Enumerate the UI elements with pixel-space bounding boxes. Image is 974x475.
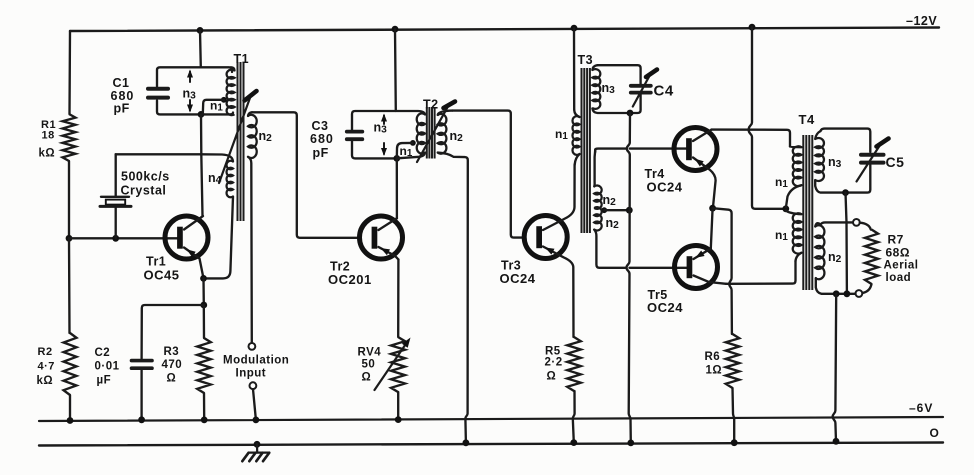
label n2 lower of T3 bbox=[606, 216, 620, 231]
capacitor C2 bbox=[132, 361, 153, 369]
tuning arrow T1 bbox=[219, 91, 257, 183]
terminal modulation input top bbox=[249, 343, 256, 350]
wire bias line vertical bbox=[627, 113, 631, 443]
svg-text:Tr1: Tr1 bbox=[146, 255, 166, 269]
label R3 470 Ohm bbox=[162, 346, 183, 385]
label Tr3 OC24 bbox=[500, 259, 536, 287]
wire R5 to 0V rail bbox=[573, 391, 575, 443]
svg-text:R2: R2 bbox=[38, 346, 53, 358]
node n2 box bottom junction right bbox=[844, 290, 851, 297]
wire R3 bottom bbox=[203, 393, 206, 420]
junction top rail at T4 feed bbox=[749, 24, 756, 31]
node C5 box bottom junction bbox=[842, 189, 849, 196]
tuning arrow T2 bbox=[417, 102, 455, 163]
winding T1 lower-left n4 bbox=[201, 154, 233, 197]
svg-text:1Ω: 1Ω bbox=[706, 365, 723, 377]
label R5 2.2 Ohm bbox=[545, 346, 563, 383]
winding T3 right n2 upper bbox=[594, 150, 602, 209]
winding T3 left n1 bbox=[572, 116, 579, 155]
label T3 bbox=[578, 53, 594, 67]
wire centre tap stub bbox=[604, 209, 629, 211]
wire Tr2 emitter lead bbox=[379, 247, 399, 260]
svg-text:0·01: 0·01 bbox=[95, 361, 120, 373]
svg-text:470: 470 bbox=[162, 359, 183, 371]
svg-text:C2: C2 bbox=[95, 347, 111, 359]
svg-text:kΩ: kΩ bbox=[37, 375, 54, 387]
svg-text:OC45: OC45 bbox=[144, 268, 180, 283]
junction R3 on -6V rail bbox=[201, 417, 208, 424]
svg-text:C4: C4 bbox=[654, 83, 674, 100]
terminal modulation input bottom bbox=[250, 382, 257, 389]
svg-text:Ω: Ω bbox=[167, 373, 177, 385]
wire C2 bottom bbox=[140, 370, 142, 420]
svg-text:pF: pF bbox=[114, 102, 130, 116]
wire n2 box bottom edge bbox=[816, 278, 856, 294]
label C1 680 pF bbox=[111, 76, 135, 116]
wire rail feed to T3 n1 bbox=[574, 28, 580, 117]
resistor R2 bbox=[64, 333, 77, 395]
wire Tr5 base bbox=[630, 267, 688, 269]
arrow C4 variable bbox=[633, 70, 657, 107]
wire R6 to 0V rail bbox=[733, 388, 735, 443]
svg-text:500kc/s: 500kc/s bbox=[121, 170, 170, 184]
arrow C5 variable bbox=[857, 139, 889, 182]
wire C4 box top edge bbox=[598, 65, 641, 84]
wire modulation ground lead bbox=[253, 389, 256, 420]
winding T2 left n3/n1 bbox=[399, 113, 425, 158]
winding T4 left n1 lower bbox=[786, 211, 802, 262]
wire Tr4 emitter to T4 bbox=[712, 130, 791, 147]
wire crystal bottom lead bbox=[115, 208, 117, 239]
core T2 bbox=[427, 107, 435, 159]
crystal XT 500kc/s bbox=[100, 197, 131, 207]
resistor R3 bbox=[197, 338, 211, 393]
transistor Tr1 bbox=[165, 216, 208, 259]
wire n1 tap stub bbox=[203, 100, 224, 115]
junction RV4 on -6V rail bbox=[395, 416, 402, 423]
wire -12V supply rail bbox=[70, 28, 939, 32]
resistor R7 bbox=[865, 230, 878, 285]
wire Tr4 emitter lead bbox=[693, 130, 712, 141]
wire aerial top to R7 bbox=[860, 223, 871, 230]
transistor Tr4 bbox=[674, 128, 717, 171]
label n3 of T2 bbox=[374, 121, 388, 136]
svg-text:C1: C1 bbox=[113, 76, 130, 90]
node C1 box bottom junction bbox=[198, 111, 205, 118]
winding T4 right n3 bbox=[815, 131, 824, 181]
svg-text:C3: C3 bbox=[312, 119, 329, 133]
label T4 bbox=[799, 112, 815, 127]
wire rail feed to C3 box bbox=[394, 29, 397, 111]
wire Tr2 emitter to RV4 bbox=[397, 260, 400, 338]
transistor Tr5 bbox=[675, 246, 718, 289]
wire T4 return to 0V rail bbox=[833, 294, 837, 442]
label RV4 50 Ohm bbox=[358, 347, 382, 384]
label 500kc/s Crystal bbox=[121, 170, 170, 198]
label C4 bbox=[654, 83, 674, 100]
svg-text:T1: T1 bbox=[234, 52, 250, 66]
svg-text:T4: T4 bbox=[799, 112, 815, 127]
wire T2 n2 bottom to 0V rail bbox=[438, 153, 468, 443]
label n2 upper of T3 bbox=[603, 193, 617, 208]
svg-text:Input: Input bbox=[236, 368, 267, 380]
node T4 centre tap bbox=[782, 205, 789, 212]
wire n2 top to Tr2 base bbox=[252, 112, 360, 238]
wire C1 box bottom edge bbox=[157, 101, 233, 115]
terminal aerial top bbox=[853, 219, 860, 226]
label n4 of T1 bbox=[208, 171, 222, 186]
wire n2 box top edge bbox=[821, 222, 853, 224]
wire C2 top bbox=[142, 305, 204, 359]
svg-text:R6: R6 bbox=[705, 351, 721, 363]
wire n4 return to emitter node bbox=[204, 197, 234, 279]
junction R2 on -6V rail bbox=[67, 417, 74, 424]
junction R5 on 0V rail bbox=[570, 439, 577, 446]
svg-text:O: O bbox=[930, 426, 940, 440]
svg-text:Ω: Ω bbox=[547, 371, 557, 383]
wire rail feed to T4 centre tap bbox=[749, 27, 786, 209]
winding T1 right n2 bbox=[248, 112, 257, 158]
junction bias line on 0V rail bbox=[627, 440, 634, 447]
capacitor C3 bbox=[347, 132, 363, 140]
label n1 lower of T4 bbox=[775, 228, 788, 243]
svg-text:load: load bbox=[886, 272, 912, 284]
svg-text:OC201: OC201 bbox=[328, 272, 372, 287]
node C4 box bottom junction bbox=[627, 110, 634, 117]
node ground junction on 0V rail bbox=[254, 441, 261, 448]
label C2 0.01 uF bbox=[95, 347, 120, 387]
svg-text:18: 18 bbox=[42, 130, 55, 142]
wire T3 n1 bottom to Tr3 collector bbox=[575, 154, 580, 165]
label Modulation Input bbox=[223, 355, 289, 380]
label R1 18 kOhm bbox=[39, 119, 57, 160]
capacitor C1 bbox=[148, 89, 168, 98]
wire -6V rail bbox=[39, 417, 943, 421]
wire emitter to C2 tee bbox=[202, 278, 205, 305]
label Tr5 OC24 bbox=[647, 288, 683, 315]
wire R2 to -6V rail bbox=[69, 395, 71, 421]
label n2 of T1 bbox=[259, 129, 273, 144]
svg-text:T2: T2 bbox=[423, 98, 439, 112]
wire T3 n2 upper top to Tr4 base bbox=[595, 149, 626, 152]
label T1 bbox=[234, 52, 250, 66]
wire Tr3 collector lead bbox=[543, 165, 575, 231]
wire C5 box top edge bbox=[821, 129, 871, 152]
wire Tr1 collector lead bbox=[184, 216, 203, 230]
winding T2 right n2 bbox=[438, 111, 453, 154]
node C3 box bottom junction bbox=[393, 155, 400, 162]
wire C5 box bottom edge bbox=[815, 165, 870, 193]
label n1 of T1 bbox=[210, 99, 223, 114]
label n1 upper of T4 bbox=[775, 175, 788, 190]
wire Tr4 collector to Tr5 emitter bbox=[711, 208, 713, 248]
junction top rail at T3 feed bbox=[571, 25, 578, 32]
wire n2 bottom to modulation bbox=[248, 157, 252, 343]
svg-text:T3: T3 bbox=[578, 53, 594, 67]
svg-text:OC24: OC24 bbox=[647, 300, 683, 315]
svg-text:4·7: 4·7 bbox=[38, 361, 55, 373]
svg-text:pF: pF bbox=[313, 146, 329, 160]
svg-text:R3: R3 bbox=[164, 346, 180, 358]
svg-text:RV4: RV4 bbox=[358, 347, 382, 359]
wire C1 box top edge bbox=[157, 67, 232, 86]
winding T4 left n1 upper bbox=[786, 146, 802, 207]
capacitor C4 bbox=[631, 86, 651, 93]
wire Tr4 base bbox=[630, 147, 687, 149]
wire Tr4 collector lead bbox=[693, 158, 716, 206]
resistor R5 bbox=[567, 337, 581, 391]
label C3 680 pF bbox=[310, 119, 334, 160]
dimension arrow n3 of T1 bbox=[187, 70, 193, 113]
label n3 of T4 bbox=[828, 155, 842, 170]
label -6V bbox=[909, 401, 933, 415]
node Tr1 emitter junction bbox=[200, 275, 207, 282]
node n2 centre tap of T3 bbox=[601, 207, 607, 213]
svg-text:C5: C5 bbox=[886, 154, 905, 170]
label R6 1 Ohm bbox=[705, 351, 723, 377]
wire crystal node horizontal bbox=[116, 153, 201, 155]
svg-text:50: 50 bbox=[362, 359, 376, 371]
resistor R6 bbox=[726, 334, 740, 388]
wire Tr4 collector to R6 bbox=[713, 208, 732, 334]
node C2 tee bbox=[200, 302, 207, 309]
core T3 bbox=[582, 68, 590, 233]
label -12V bbox=[906, 14, 937, 28]
resistor R1 bbox=[63, 114, 76, 161]
wire C3 box bottom edge bbox=[352, 141, 397, 158]
junction top rail at C3 feed bbox=[392, 26, 399, 33]
svg-text:OC24: OC24 bbox=[500, 271, 536, 286]
junction T2 return on 0V rail bbox=[463, 439, 470, 446]
wire R1 to base node bbox=[68, 161, 70, 238]
junction C2 on -6V rail bbox=[138, 416, 145, 423]
core T1 bbox=[238, 62, 244, 221]
label n1 of T2 bbox=[400, 144, 413, 159]
wire n1 tap stub of T2 bbox=[397, 143, 413, 159]
label n2 of T2 bbox=[450, 129, 464, 144]
wire collector riser of Tr1 bbox=[201, 114, 203, 215]
junction modulation on -6V rail bbox=[253, 417, 260, 424]
svg-text:Modulation: Modulation bbox=[223, 355, 289, 367]
dimension arrow n3 of T2 bbox=[381, 114, 387, 157]
arrow RV4 wiper bbox=[375, 338, 411, 391]
label R2 4.7 kOhm bbox=[37, 346, 55, 387]
label n3 of T1 bbox=[183, 87, 197, 102]
svg-text:OC24: OC24 bbox=[647, 180, 683, 195]
wire Tr5 collector lead bbox=[694, 276, 727, 284]
transistor Tr3 bbox=[524, 216, 567, 259]
svg-text:Aerial: Aerial bbox=[884, 260, 919, 272]
svg-text:680: 680 bbox=[310, 132, 334, 146]
winding T3 right n2 lower bbox=[594, 207, 626, 268]
junction R6 on 0V rail bbox=[731, 439, 738, 446]
label n2 of T4 bbox=[828, 250, 842, 265]
svg-text:–6V: –6V bbox=[909, 401, 933, 415]
junction top rail at C1 feed bbox=[197, 27, 204, 34]
svg-text:kΩ: kΩ bbox=[39, 148, 56, 160]
node base junction at R1/R2 bbox=[66, 235, 73, 242]
ground chassis symbol bbox=[242, 444, 269, 461]
wire T2 n2 top to Tr3 base bbox=[452, 111, 523, 238]
label R7 68 Ohm Aerial load bbox=[884, 233, 919, 285]
label Tr2 OC201 bbox=[328, 260, 372, 288]
wire Tr3 emitter lead bbox=[543, 247, 574, 338]
svg-text:2·2: 2·2 bbox=[545, 357, 563, 369]
wire C3 box top edge bbox=[352, 111, 425, 130]
node centre tap on bias line bbox=[626, 207, 633, 214]
wire Tr5 collector to T4 n1 bottom bbox=[726, 261, 796, 284]
wire Tr2 collector riser bbox=[396, 158, 398, 218]
svg-text:Crystal: Crystal bbox=[121, 184, 167, 198]
winding T1 upper-left n3/n1 bbox=[227, 67, 235, 115]
wire left branch from rail to R1 bbox=[68, 31, 71, 114]
wire 0V rail bbox=[39, 443, 943, 446]
capacitor C5 bbox=[861, 155, 884, 163]
wire Tr1 emitter lead bbox=[184, 248, 204, 279]
label T2 bbox=[423, 98, 439, 112]
winding T4 right n2 bbox=[815, 223, 824, 279]
label n3 of T3 bbox=[602, 81, 616, 96]
wire R7 to aerial bottom bbox=[863, 284, 872, 293]
wire rail feed to C1 box bbox=[199, 30, 202, 67]
svg-text:Ω: Ω bbox=[362, 372, 372, 384]
node n2 box bottom junction left bbox=[833, 290, 840, 297]
label Tr4 OC24 bbox=[645, 167, 683, 195]
wire Tr1 base bbox=[69, 237, 178, 239]
label C5 bbox=[886, 154, 905, 170]
node Tr4 collector junction bbox=[709, 205, 716, 212]
transistor Tr2 bbox=[360, 216, 403, 259]
node n1 tap of T2 bbox=[410, 140, 416, 146]
wire RV4 bottom bbox=[397, 392, 399, 420]
terminal aerial bottom bbox=[856, 290, 863, 297]
label Tr1 OC45 bbox=[144, 255, 180, 283]
wire R3 top bbox=[203, 305, 206, 338]
label 0 bbox=[930, 426, 940, 440]
wire Tr5 emitter lead bbox=[694, 249, 711, 260]
wire C5 box to n2 box link bbox=[846, 193, 847, 294]
svg-text:µF: µF bbox=[97, 375, 112, 387]
wire R2 vertical upper bbox=[68, 238, 71, 333]
label n1 of T3 bbox=[555, 127, 568, 142]
resistor RV4 bbox=[391, 337, 405, 392]
wire C4 box bottom edge bbox=[592, 95, 640, 113]
junction T4 return on 0V rail bbox=[833, 438, 840, 445]
svg-text:68Ω: 68Ω bbox=[886, 246, 910, 260]
wire Tr2 collector lead bbox=[379, 218, 397, 230]
core T4 bbox=[803, 135, 812, 290]
winding T3 right n3 bbox=[592, 65, 600, 109]
node crystal bottom junction bbox=[112, 235, 119, 242]
svg-text:–12V: –12V bbox=[906, 14, 937, 28]
svg-text:R7: R7 bbox=[888, 233, 904, 247]
wire crystal top lead bbox=[115, 154, 117, 196]
node n1 tap of T1 bbox=[221, 97, 227, 103]
